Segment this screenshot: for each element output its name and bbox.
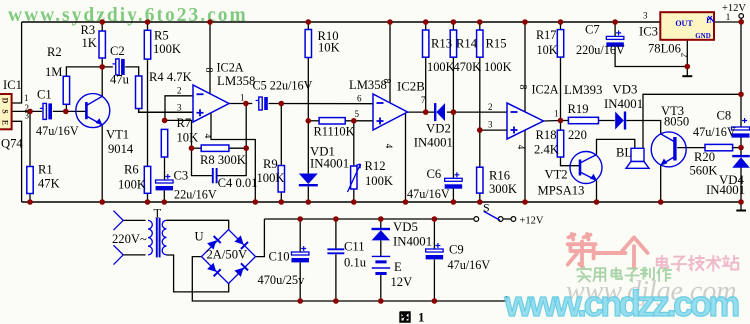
wire LM393 pin4 (524, 131, 526, 203)
bridge rectifier U (202, 230, 256, 284)
node right gnd corner (738, 199, 744, 205)
resistor R8 (201, 145, 229, 151)
svg-text:3: 3 (643, 11, 648, 21)
svg-text:220: 220 (568, 128, 587, 142)
capacitor C1 (40, 103, 52, 119)
wire LM393 pin8 (524, 22, 526, 112)
node VD5 top (378, 216, 384, 222)
regulator IC3 78L06 (660, 12, 715, 40)
svg-text:100K: 100K (257, 171, 285, 185)
svg-text:1: 1 (418, 310, 425, 324)
wire IC1 pin3 riser to ground (12, 121, 22, 202)
resistor R10 (305, 30, 311, 58)
wire C1 to base node (53, 110, 86, 112)
diode VD4 (732, 155, 750, 168)
svg-text:4: 4 (516, 145, 526, 150)
wire C5 to R9 node, on to IC2B minus (269, 103, 373, 105)
node C5 out (279, 101, 285, 107)
capacitor C8 (732, 118, 750, 138)
svg-text:10K: 10K (177, 130, 199, 144)
svg-text:IC2A: IC2A (217, 61, 244, 75)
svg-text:LM393: LM393 (564, 83, 602, 97)
svg-text:C11: C11 (344, 240, 365, 254)
node R13 top (423, 19, 429, 25)
svg-text:1: 1 (554, 109, 559, 119)
watermark 第一个 (pink) (568, 234, 648, 268)
node C7 top (612, 19, 618, 25)
node C10 top (297, 216, 303, 222)
wire VD3 to VT3 collector (626, 121, 661, 134)
svg-text:R14: R14 (456, 37, 478, 51)
svg-text:MPSA13: MPSA13 (538, 183, 585, 197)
svg-text:R1110K: R1110K (314, 125, 355, 139)
node R6 gnd (145, 199, 151, 205)
wire IC2A pin8 (209, 22, 211, 94)
node R1 gnd (27, 199, 33, 205)
svg-text:C6: C6 (427, 167, 442, 181)
svg-text:IN4001: IN4001 (604, 97, 643, 111)
wire secondary bottom to bridge bottom (167, 255, 229, 292)
resistor R18 (557, 130, 563, 157)
svg-text:3: 3 (177, 103, 182, 113)
wire R14 column (452, 22, 454, 30)
node VD2 out (451, 109, 457, 115)
resistor R6 (144, 166, 150, 193)
wire left riser to IC1 pin1 (12, 22, 22, 103)
resistor R13 (423, 30, 429, 57)
wire bridge plus output riser (255, 219, 264, 257)
svg-text:VD5: VD5 (393, 220, 418, 234)
svg-text:300K: 300K (489, 182, 517, 196)
wire bridge minus to supply ground line (192, 257, 506, 301)
svg-text:R7: R7 (177, 116, 192, 130)
wire R9 column (280, 104, 282, 166)
transistor VT2 MPSA13 (570, 152, 602, 184)
resistor R17 (557, 30, 563, 57)
svg-text:8: 8 (203, 68, 214, 73)
svg-text:R15: R15 (486, 37, 507, 51)
wire IC2B output to VD2 (408, 111, 435, 113)
wire R17 column (560, 22, 562, 30)
svg-text:C9: C9 (449, 243, 464, 257)
svg-text:R5: R5 (154, 29, 169, 43)
wire IC2A pin4 to ground (211, 113, 255, 202)
svg-text:BL: BL (616, 146, 632, 160)
svg-text:R12: R12 (365, 159, 386, 173)
svg-text:R16: R16 (489, 169, 510, 183)
svg-text:LM358: LM358 (217, 74, 255, 88)
wire LM393 plus input (480, 129, 507, 131)
svg-text:2: 2 (488, 102, 493, 112)
svg-text:220u/16V: 220u/16V (576, 43, 625, 57)
svg-text:R8 300K: R8 300K (200, 153, 246, 167)
resistor R9 (278, 166, 284, 193)
wire R5-R6 column (147, 22, 149, 30)
svg-text:2A/50V: 2A/50V (207, 248, 248, 262)
node IC2B pin4 gnd (403, 199, 409, 205)
capacitor C11 (327, 249, 344, 253)
caption 图 1 (400, 312, 409, 321)
wire IC2A minus input (165, 96, 193, 121)
svg-text:9014: 9014 (108, 142, 134, 156)
resistor R14 (450, 30, 456, 57)
comparator IC2A LM393 (507, 103, 544, 139)
svg-text:220V~: 220V~ (112, 232, 147, 246)
svg-text:C1: C1 (37, 88, 52, 102)
svg-text:R19: R19 (568, 102, 589, 116)
svg-text:GND: GND (695, 32, 711, 40)
wire +12V right column (740, 22, 742, 127)
svg-text:R17: R17 (536, 28, 556, 42)
wire R18 column and base of VT2 (560, 121, 562, 131)
resistor R11 (319, 118, 345, 124)
svg-text:C8: C8 (717, 108, 732, 122)
svg-text:IN4001: IN4001 (310, 157, 349, 171)
svg-text:2: 2 (680, 53, 690, 58)
diode VD3 (615, 112, 626, 130)
diode VD1 (299, 174, 318, 187)
svg-text:4: 4 (203, 134, 213, 139)
node +12V corner (738, 19, 744, 25)
wire secondary top to bridge (167, 220, 229, 230)
node IC2A pin4 gnd (253, 199, 259, 205)
node R10 top (306, 19, 312, 25)
wire C2 node to R4 (102, 66, 113, 68)
arrow across R12 (preset) (348, 164, 361, 192)
wire IC2A output (229, 103, 252, 105)
svg-text:C4 0.01: C4 0.01 (218, 176, 258, 190)
svg-text:470u/25v: 470u/25v (258, 273, 306, 287)
svg-text:100K: 100K (427, 60, 455, 74)
svg-text:47u/16V: 47u/16V (407, 187, 450, 201)
wire IC3 pin1 to +12V terminal (714, 21, 741, 23)
svg-text:10K: 10K (318, 41, 340, 55)
terminal +12V (739, 14, 744, 19)
svg-text:www.cndzz.com: www.cndzz.com (504, 283, 739, 324)
wire VD5 battery column (380, 219, 382, 228)
wire R7 to C3 (164, 157, 166, 180)
svg-text:7: 7 (421, 95, 426, 105)
node R11 right (351, 118, 357, 124)
capacitor C2 (113, 59, 125, 75)
node R9 gnd (279, 199, 285, 205)
svg-text:VT2: VT2 (545, 168, 568, 182)
svg-text:3: 3 (488, 120, 493, 130)
svg-text:R4 4.7K: R4 4.7K (149, 70, 192, 84)
wire R3 leads (101, 22, 103, 31)
capacitor C4 (213, 168, 217, 183)
svg-text:+12V: +12V (722, 3, 746, 14)
svg-text:R2: R2 (47, 45, 62, 59)
wire R2 leads (65, 104, 67, 111)
svg-text:C5 22u/16V: C5 22u/16V (253, 79, 313, 93)
node E bottom (378, 298, 384, 304)
wire IC2B pin8 (389, 22, 391, 103)
battery E (372, 256, 390, 273)
wire C7 column (614, 22, 616, 36)
wire R11 leads (308, 120, 319, 122)
wire R7 node to R8 left (165, 120, 192, 148)
wire +6V top rail (22, 21, 661, 23)
svg-text:R13: R13 (431, 37, 452, 51)
svg-text:C7: C7 (585, 23, 600, 37)
svg-text:VD2: VD2 (426, 121, 451, 135)
capacitor C5 (256, 97, 268, 110)
svg-text:12V: 12V (391, 275, 413, 289)
svg-text:2.4K: 2.4K (534, 143, 559, 157)
IC1 pin letters D S E (1, 98, 10, 126)
wire R19 leads (561, 120, 569, 122)
wire C9 column (433, 219, 435, 249)
wire R13 column (425, 22, 427, 30)
wire R4 bottom to IC2A plus input (139, 109, 193, 113)
node VT2 emitter gnd (594, 199, 600, 205)
svg-text:E: E (394, 260, 402, 274)
node IC2B pin8 top (387, 19, 393, 25)
svg-text:IN4001: IN4001 (414, 135, 453, 149)
speaker BL (626, 148, 649, 168)
capacitor C6 (445, 172, 463, 188)
node VD1 gnd (306, 199, 312, 205)
sensor IC1 Q74 (0, 94, 12, 129)
wire C4 left branch (192, 148, 212, 175)
svg-text:5: 5 (355, 109, 360, 119)
AC input terminals (114, 211, 124, 265)
resistor R4 (136, 76, 142, 109)
svg-text:10K: 10K (537, 43, 558, 57)
wire LM393 output (544, 120, 561, 123)
svg-text:S: S (1, 109, 10, 114)
node R8 left (189, 145, 195, 151)
transistor VT3 8050 (mirrored) (651, 132, 686, 167)
svg-text:D: D (1, 98, 10, 104)
svg-text:E: E (1, 120, 10, 125)
resistor R12 (351, 166, 357, 189)
svg-text:C3: C3 (174, 168, 189, 182)
svg-text:S: S (483, 200, 490, 214)
node R7 top (162, 118, 168, 124)
svg-text:IC2A: IC2A (532, 83, 559, 97)
svg-text:22u/16V: 22u/16V (174, 187, 217, 201)
svg-text:R20: R20 (694, 150, 715, 164)
svg-text:OUT: OUT (675, 19, 693, 28)
svg-text:1: 1 (240, 92, 245, 102)
svg-text:47u: 47u (110, 73, 130, 87)
svg-text:100K: 100K (153, 42, 181, 56)
node speaker feed (738, 92, 744, 98)
wire supply +12V line (264, 218, 474, 220)
svg-text:470K: 470K (454, 60, 482, 74)
svg-text:Q74: Q74 (1, 137, 23, 151)
node IC2A output (243, 101, 249, 107)
svg-text:IN4001: IN4001 (393, 234, 432, 248)
resistor R7 (161, 129, 167, 157)
wire VD2 to LM393 minus (447, 111, 507, 113)
wire IC1 pin2 lead (12, 110, 42, 112)
svg-text:4: 4 (384, 144, 394, 149)
capacitor C10 (291, 246, 309, 262)
node C11 top (333, 216, 339, 222)
node LM393 pin4 gnd (522, 199, 528, 205)
node R8 right (243, 145, 249, 151)
wire R12 column (353, 121, 355, 166)
node R11 left (306, 118, 312, 124)
svg-text:IC3: IC3 (639, 25, 658, 39)
resistor R5 (144, 30, 150, 59)
node C3 gnd (162, 199, 168, 205)
wire VT1 emitter riser (101, 125, 103, 202)
svg-text:1: 1 (24, 93, 29, 103)
svg-text:100K: 100K (484, 60, 512, 74)
node IC1 pin2 (27, 109, 33, 115)
wire C11 column (335, 219, 337, 249)
svg-text:8: 8 (517, 85, 528, 90)
wire IC2B pin4 (405, 113, 407, 202)
svg-text:C10: C10 (269, 250, 290, 264)
svg-text:R18: R18 (536, 128, 557, 142)
svg-text:8: 8 (381, 79, 392, 84)
svg-text:VD3: VD3 (613, 83, 638, 97)
wire AC terminal leads (123, 219, 145, 221)
svg-text:C2: C2 (110, 44, 125, 58)
switch S (474, 211, 516, 221)
node R13 bottom (423, 109, 429, 115)
transistor VT1 9014 (76, 94, 110, 128)
watermark 实用电子制作 (light green) (577, 267, 671, 282)
node R3 top (99, 19, 105, 25)
node C6 gnd (451, 199, 457, 205)
node C9 top (432, 216, 438, 222)
svg-text:0.1u: 0.1u (344, 256, 367, 270)
capacitor C7 (606, 30, 624, 46)
svg-text:100K: 100K (118, 178, 146, 192)
node C10 bottom (297, 298, 303, 304)
node R17 top (558, 19, 564, 25)
resistor R16 (477, 167, 483, 193)
node C11 bottom (333, 298, 339, 304)
node LM393 pin8 top (522, 19, 528, 25)
wire speaker to +12V column (643, 94, 741, 148)
node LM393 output (558, 118, 564, 124)
svg-text:U: U (195, 230, 204, 244)
wire R8 leads (192, 147, 202, 149)
resistor R2 (63, 76, 69, 104)
svg-text:3: 3 (25, 111, 30, 121)
op-amp IC2A LM358 (193, 85, 229, 122)
wire R1 column (29, 111, 31, 166)
node R15 top (477, 19, 483, 25)
resistor R19 (568, 117, 598, 123)
svg-text:47u/16V: 47u/16V (448, 258, 491, 272)
wire C6 column (452, 112, 454, 178)
node VT1 collector (99, 64, 105, 70)
capacitor C3 (156, 174, 174, 190)
resistor R3 (99, 31, 105, 58)
svg-text:VT1: VT1 (106, 128, 129, 142)
svg-text:IC2B: IC2B (397, 80, 425, 94)
svg-text:1K: 1K (82, 36, 97, 50)
svg-text:2: 2 (177, 86, 182, 96)
diode VD5 (372, 228, 391, 241)
wire VT2 collector to speaker (597, 139, 635, 154)
wire R10 / R11 / VD1 column (307, 22, 309, 30)
node IC3 gnd (685, 64, 691, 70)
node C9 bottom (432, 298, 438, 304)
svg-text:47u/16V: 47u/16V (36, 124, 79, 138)
wire VT2 emitter to ground (596, 180, 598, 202)
wire C10 column (299, 219, 301, 252)
svg-text:1M: 1M (45, 65, 63, 79)
node VT1 base (63, 109, 69, 115)
svg-text:IC1: IC1 (3, 78, 22, 92)
svg-text:IN4001: IN4001 (706, 183, 745, 197)
svg-text:T: T (154, 207, 162, 221)
node VT1 emitter gnd (99, 199, 105, 205)
svg-text:R6: R6 (124, 163, 139, 177)
resistor R15 (477, 30, 483, 57)
svg-text:47u/16V: 47u/16V (693, 125, 736, 139)
svg-text:R1: R1 (38, 163, 53, 177)
wire ground rail (22, 201, 741, 203)
ground symbol bottom right (740, 202, 742, 211)
wire C3 to ground (163, 191, 165, 203)
op-amp IC2B LM358 (373, 94, 408, 130)
watermark 电子技术站 (light pink) (657, 256, 739, 271)
wire IC3 pin2 (686, 40, 688, 67)
resistor R1 (27, 167, 33, 194)
resistor R20 (705, 144, 733, 150)
node LM393 plus (477, 127, 483, 133)
wire VT3 emitter to ground (660, 165, 662, 202)
svg-text:78L06: 78L06 (648, 42, 681, 56)
svg-text:8050: 8050 (664, 115, 689, 129)
svg-text:100K: 100K (365, 174, 393, 188)
node VT3 emitter gnd (658, 199, 664, 205)
svg-text:560K: 560K (690, 164, 718, 178)
node R14 top (451, 19, 457, 25)
capacitor C9 (426, 243, 444, 259)
svg-text:47K: 47K (38, 177, 60, 191)
svg-text:R3: R3 (81, 23, 96, 37)
node R12 gnd (351, 199, 357, 205)
node R20 right (738, 145, 744, 151)
svg-text:R9: R9 (263, 157, 278, 171)
wire R16 column (479, 130, 481, 167)
svg-text:+12V: +12V (520, 215, 544, 226)
wire VT1 collector riser (101, 67, 103, 96)
transformer T (148, 218, 167, 258)
wire R20 to VT3 base (677, 147, 705, 149)
ground symbol under IC3 (686, 67, 688, 77)
node R5 top (145, 19, 151, 25)
wire R15 column (479, 22, 481, 30)
node R16 gnd (477, 199, 483, 205)
diode VD2 (434, 103, 445, 121)
node IC2A pin8 top (207, 19, 213, 25)
svg-text:6: 6 (357, 94, 362, 104)
wire C4 right branch / output column (218, 104, 247, 176)
